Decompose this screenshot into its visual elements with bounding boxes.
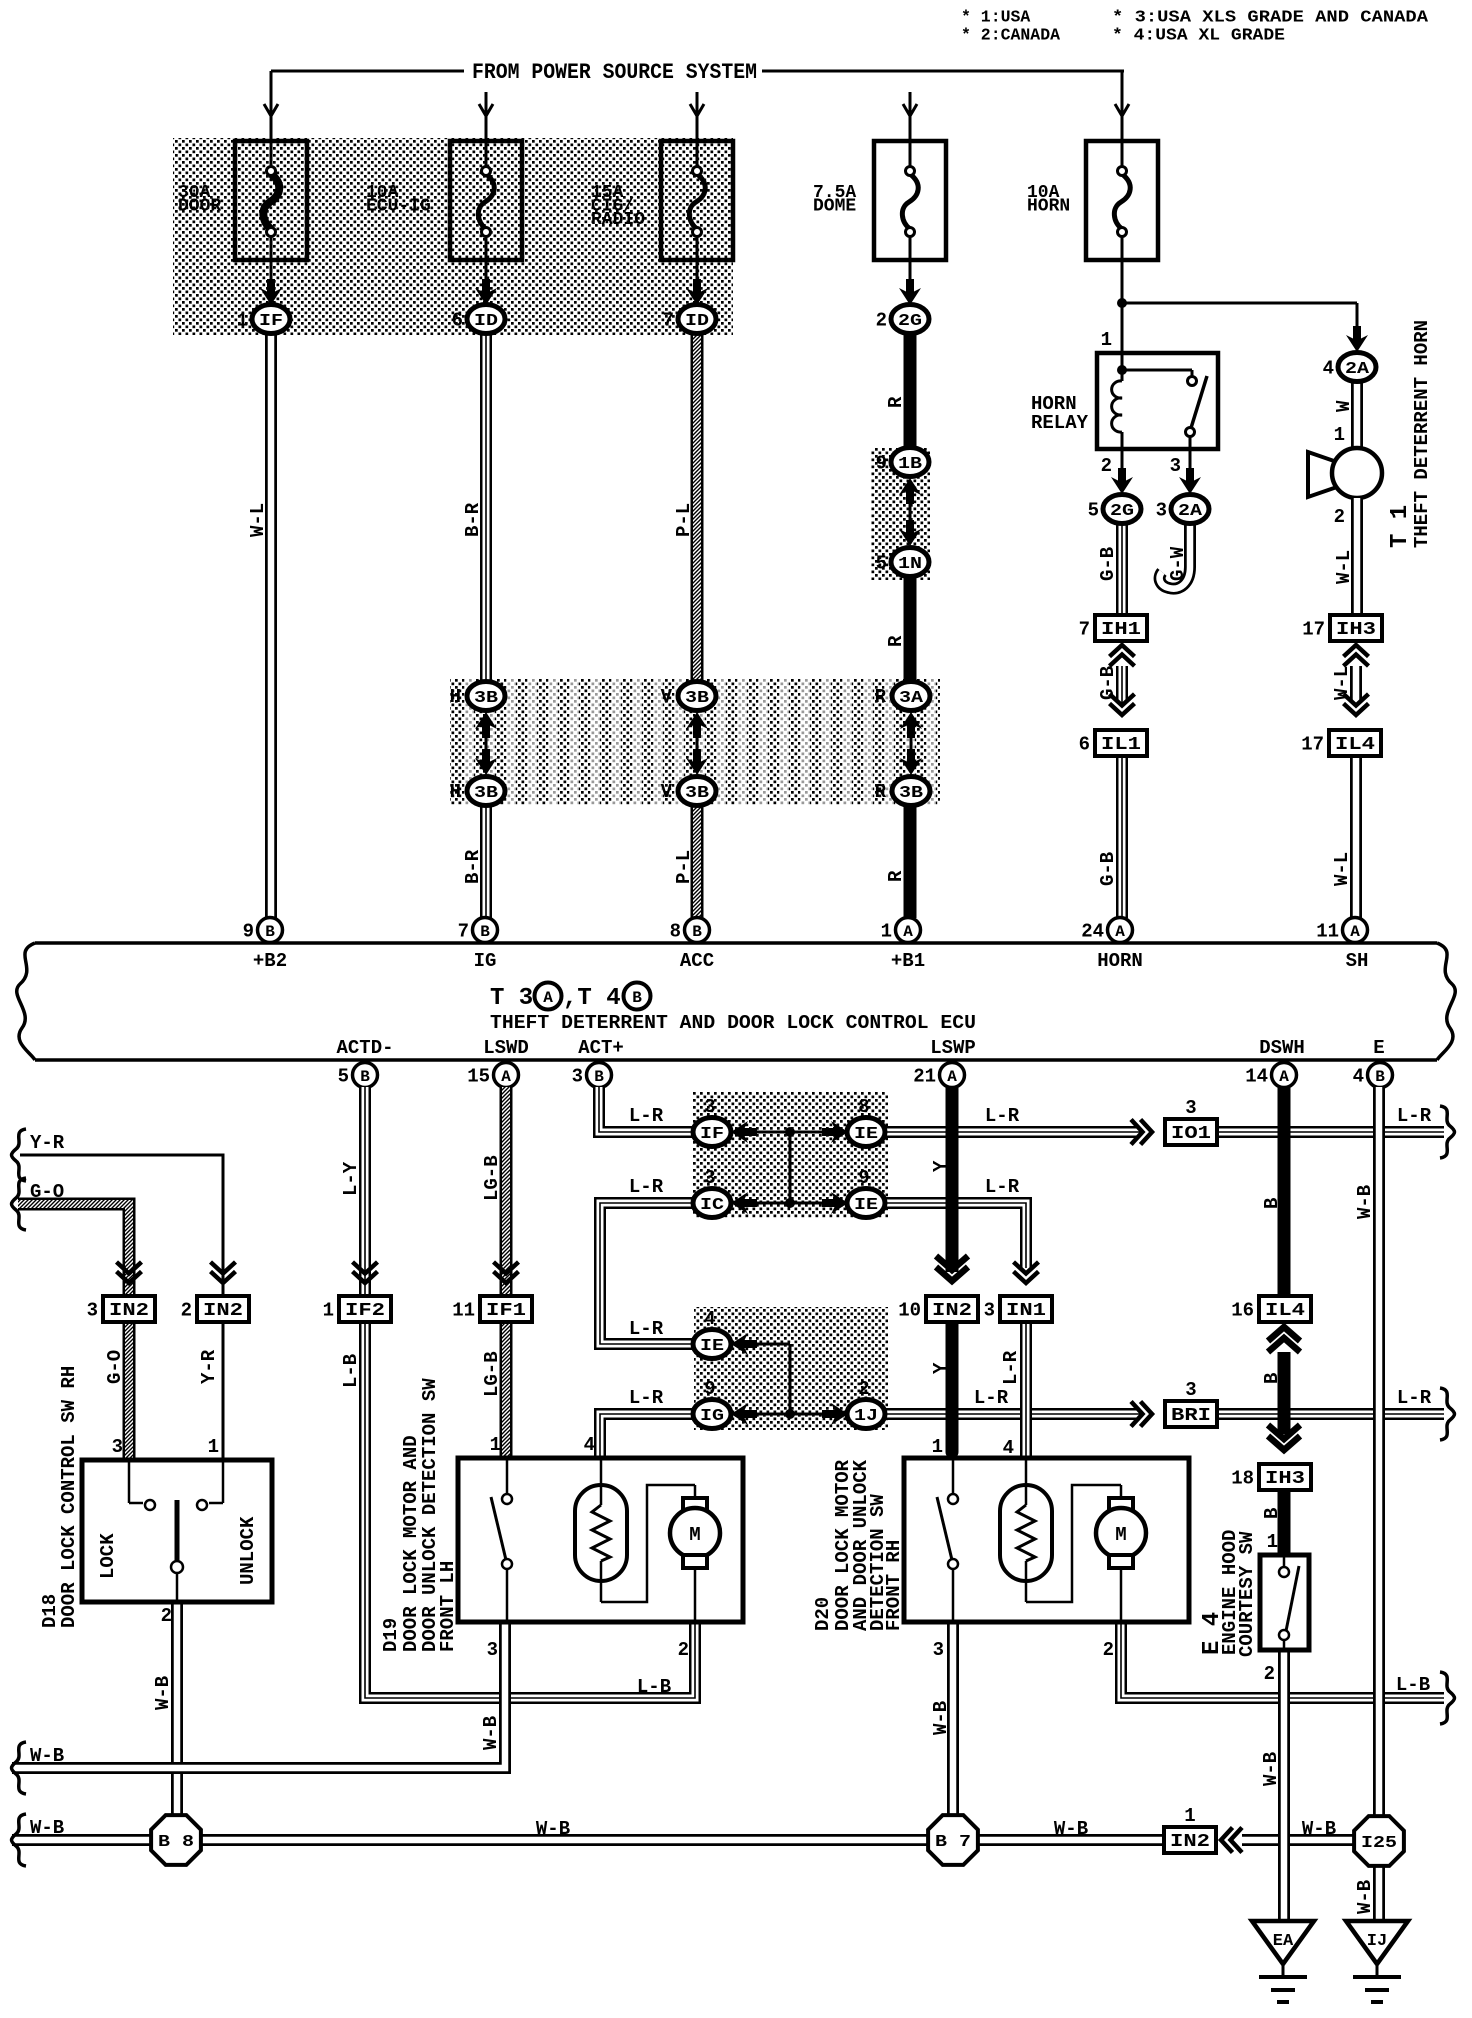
svg-text:I25: I25	[1361, 1834, 1397, 1853]
svg-text:IF1: IF1	[486, 1301, 526, 1321]
svg-text:L-R: L-R	[1397, 1387, 1432, 1409]
svg-text:ACT+: ACT+	[578, 1037, 624, 1059]
svg-text:17: 17	[1302, 619, 1325, 641]
svg-text:L-R: L-R	[629, 1318, 664, 1340]
svg-text:L-R: L-R	[985, 1176, 1020, 1198]
svg-text:R: R	[885, 870, 907, 882]
svg-text:LG-B: LG-B	[481, 1351, 503, 1397]
svg-text:A: A	[1279, 1068, 1289, 1086]
svg-text:IL4: IL4	[1335, 735, 1375, 755]
svg-text:9: 9	[876, 453, 887, 475]
svg-text:IN2: IN2	[109, 1301, 149, 1321]
svg-text:L-R: L-R	[1397, 1105, 1432, 1127]
svg-text:14: 14	[1245, 1066, 1268, 1088]
svg-text:3: 3	[933, 1639, 944, 1661]
svg-text:5: 5	[1088, 500, 1099, 522]
svg-text:HORN: HORN	[1097, 950, 1143, 972]
svg-text:16: 16	[1231, 1300, 1254, 1322]
svg-text:G-B: G-B	[1097, 852, 1119, 886]
svg-text:1: 1	[1184, 1805, 1195, 1827]
svg-text:7: 7	[1079, 619, 1090, 641]
svg-text:THEFT DETERRENT AND DOOR LOCK: THEFT DETERRENT AND DOOR LOCK CONTROL EC…	[490, 1012, 976, 1034]
svg-text:A: A	[903, 923, 913, 941]
svg-text:COURTESY SW: COURTESY SW	[1236, 1531, 1258, 1657]
svg-text:LG-B: LG-B	[481, 1155, 503, 1201]
svg-text:IH3: IH3	[1336, 620, 1376, 640]
svg-text:W-L: W-L	[1333, 550, 1355, 584]
svg-text:24: 24	[1081, 921, 1104, 943]
svg-text:2: 2	[678, 1639, 689, 1661]
svg-text:* 3:USA XLS GRADE AND CANADA: * 3:USA XLS GRADE AND CANADA	[1112, 8, 1428, 27]
svg-text:1: 1	[881, 921, 892, 943]
svg-text:W-B: W-B	[480, 1716, 502, 1750]
svg-text:R: R	[885, 635, 907, 647]
svg-text:W-B: W-B	[536, 1818, 570, 1840]
svg-text:IF: IF	[700, 1125, 724, 1144]
svg-text:L-R: L-R	[629, 1105, 664, 1127]
svg-text:W-L: W-L	[1331, 666, 1353, 700]
svg-text:2: 2	[876, 310, 887, 332]
svg-text:3: 3	[487, 1639, 498, 1661]
svg-text:3: 3	[1156, 500, 1167, 522]
svg-text:1: 1	[932, 1436, 943, 1458]
svg-text:SH: SH	[1346, 950, 1369, 972]
svg-text:3A: 3A	[899, 689, 924, 708]
svg-text:M: M	[1115, 1524, 1126, 1546]
svg-text:15: 15	[467, 1066, 490, 1088]
svg-text:A: A	[501, 1068, 511, 1086]
svg-text:R: R	[875, 781, 887, 803]
svg-text:9: 9	[704, 1378, 715, 1400]
svg-text:1: 1	[237, 310, 248, 332]
svg-text:G-O: G-O	[104, 1350, 126, 1384]
svg-text:W-B: W-B	[1054, 1818, 1088, 1840]
svg-text:IE: IE	[854, 1125, 878, 1144]
svg-text:3B: 3B	[685, 784, 709, 803]
svg-text:IL4: IL4	[1265, 1301, 1305, 1321]
svg-text:B: B	[1261, 1373, 1283, 1384]
svg-text:1J: 1J	[854, 1407, 878, 1426]
svg-text:W-B: W-B	[152, 1676, 174, 1710]
svg-text:1: 1	[323, 1300, 334, 1322]
svg-text:5: 5	[338, 1066, 349, 1088]
svg-text:V: V	[661, 686, 673, 708]
svg-text:2G: 2G	[898, 312, 922, 331]
svg-text:3: 3	[87, 1300, 98, 1322]
svg-text:ECU-IG: ECU-IG	[366, 197, 431, 217]
svg-text:B: B	[360, 1068, 370, 1086]
svg-text:1: 1	[1101, 329, 1112, 351]
svg-text:ID: ID	[685, 312, 709, 331]
svg-text:IN2: IN2	[1170, 1832, 1210, 1852]
svg-text:IN1: IN1	[1006, 1301, 1046, 1321]
svg-text:EA: EA	[1273, 1932, 1294, 1951]
svg-text:1: 1	[1267, 1531, 1278, 1553]
svg-text:3: 3	[1185, 1379, 1196, 1401]
svg-text:3: 3	[1185, 1097, 1196, 1119]
svg-text:3: 3	[1170, 455, 1181, 477]
svg-text:D19: D19	[380, 1618, 402, 1652]
svg-text:3B: 3B	[899, 784, 923, 803]
svg-text:* 4:USA XL GRADE: * 4:USA XL GRADE	[1112, 26, 1285, 45]
svg-text:3: 3	[704, 1167, 715, 1189]
svg-text:9: 9	[858, 1167, 869, 1189]
svg-text:HORN: HORN	[1027, 197, 1070, 217]
svg-text:8: 8	[858, 1096, 869, 1118]
svg-text:L-R: L-R	[1000, 1350, 1022, 1385]
svg-text:4: 4	[1353, 1066, 1364, 1088]
svg-text:A: A	[947, 1068, 957, 1086]
svg-text:DOME: DOME	[813, 197, 856, 217]
svg-text:Y: Y	[930, 1362, 952, 1374]
svg-text:ACC: ACC	[680, 950, 714, 972]
svg-text:L-Y: L-Y	[340, 1161, 362, 1196]
svg-text:2: 2	[1101, 455, 1112, 477]
svg-text:,T 4: ,T 4	[563, 985, 621, 1012]
svg-text:UNLOCK: UNLOCK	[237, 1516, 259, 1585]
svg-text:4: 4	[1003, 1437, 1014, 1459]
svg-text:A: A	[1350, 923, 1360, 941]
svg-text:4: 4	[584, 1434, 595, 1456]
svg-text:4: 4	[1323, 358, 1334, 380]
svg-text:P-L: P-L	[673, 850, 695, 884]
svg-text:+B2: +B2	[253, 950, 287, 972]
svg-text:6: 6	[1079, 734, 1090, 756]
svg-text:M: M	[689, 1524, 700, 1546]
svg-text:W-B: W-B	[930, 1701, 952, 1735]
svg-text:Y-R: Y-R	[30, 1132, 65, 1154]
svg-text:FRONT RH: FRONT RH	[883, 1540, 905, 1631]
svg-text:L-B: L-B	[340, 1354, 362, 1388]
svg-text:IL1: IL1	[1101, 735, 1141, 755]
svg-text:3: 3	[704, 1096, 715, 1118]
svg-text:G-B: G-B	[1097, 666, 1119, 700]
svg-text:2: 2	[1264, 1663, 1275, 1685]
svg-text:3: 3	[112, 1436, 123, 1458]
svg-text:B: B	[265, 923, 275, 941]
svg-text:B 8: B 8	[158, 1833, 194, 1852]
svg-text:W-B: W-B	[1260, 1752, 1282, 1786]
svg-text:2: 2	[1103, 1639, 1114, 1661]
svg-text:L-R: L-R	[985, 1105, 1020, 1127]
svg-text:FROM POWER SOURCE SYSTEM: FROM POWER SOURCE SYSTEM	[472, 60, 757, 85]
svg-text:R: R	[875, 686, 887, 708]
svg-text:2: 2	[181, 1300, 192, 1322]
svg-text:2: 2	[858, 1378, 869, 1400]
svg-text:10: 10	[898, 1300, 921, 1322]
svg-text:BRI: BRI	[1171, 1406, 1211, 1426]
svg-text:RELAY: RELAY	[1031, 412, 1089, 434]
svg-text:1N: 1N	[898, 555, 922, 574]
svg-text:11: 11	[1316, 921, 1339, 943]
svg-text:3: 3	[572, 1066, 583, 1088]
svg-text:L-B: L-B	[637, 1676, 671, 1698]
svg-text:* 2:CANADA: * 2:CANADA	[961, 26, 1060, 45]
svg-text:P-L: P-L	[673, 503, 695, 537]
svg-text:DOOR LOCK CONTROL SW RH: DOOR LOCK CONTROL SW RH	[58, 1366, 80, 1628]
svg-text:R: R	[885, 396, 907, 408]
svg-text:2A: 2A	[1178, 502, 1203, 521]
svg-text:B: B	[632, 989, 642, 1007]
svg-text:G-B: G-B	[1097, 547, 1119, 581]
svg-text:B: B	[594, 1068, 604, 1086]
svg-text:G-O: G-O	[30, 1181, 64, 1203]
svg-text:DOOR: DOOR	[178, 197, 221, 217]
svg-text:W-L: W-L	[1331, 852, 1353, 886]
svg-text:W-B: W-B	[30, 1817, 64, 1839]
svg-text:7: 7	[458, 921, 469, 943]
svg-text:21: 21	[913, 1066, 936, 1088]
svg-text:A: A	[543, 989, 553, 1007]
svg-text:* 1:USA: * 1:USA	[961, 8, 1030, 27]
svg-text:ACTD-: ACTD-	[336, 1037, 393, 1059]
svg-text:L-R: L-R	[974, 1387, 1009, 1409]
svg-text:L-B: L-B	[1396, 1674, 1430, 1696]
svg-text:THEFT DETERRENT HORN: THEFT DETERRENT HORN	[1411, 320, 1433, 548]
svg-text:L-R: L-R	[629, 1387, 664, 1409]
svg-text:B: B	[1375, 1068, 1385, 1086]
svg-text:3B: 3B	[474, 689, 498, 708]
svg-text:7: 7	[663, 310, 674, 332]
svg-text:3B: 3B	[474, 784, 498, 803]
svg-text:W-B: W-B	[1302, 1818, 1336, 1840]
svg-text:1B: 1B	[898, 455, 922, 474]
svg-text:B-R: B-R	[462, 502, 484, 537]
svg-text:17: 17	[1301, 734, 1324, 756]
svg-text:3B: 3B	[685, 689, 709, 708]
svg-text:E: E	[1373, 1037, 1384, 1059]
svg-text:FRONT LH: FRONT LH	[437, 1561, 459, 1652]
svg-text:1: 1	[1334, 424, 1345, 446]
svg-text:1: 1	[490, 1434, 501, 1456]
svg-text:W-B: W-B	[30, 1745, 64, 1767]
svg-text:W: W	[1333, 400, 1355, 412]
svg-text:IH3: IH3	[1265, 1469, 1305, 1489]
svg-text:2: 2	[1334, 506, 1345, 528]
svg-text:D20: D20	[812, 1597, 834, 1631]
svg-text:2G: 2G	[1110, 502, 1134, 521]
svg-text:IF: IF	[259, 312, 283, 331]
svg-text:ID: ID	[474, 312, 498, 331]
svg-text:DSWH: DSWH	[1259, 1037, 1305, 1059]
svg-text:18: 18	[1231, 1468, 1254, 1490]
svg-text:G-W: G-W	[1167, 546, 1189, 581]
svg-text:6: 6	[452, 310, 463, 332]
svg-text:Y-R: Y-R	[198, 1349, 220, 1384]
svg-text:IG: IG	[700, 1407, 724, 1426]
svg-text:IJ: IJ	[1367, 1932, 1387, 1951]
svg-text:3: 3	[984, 1300, 995, 1322]
svg-text:B: B	[1261, 1508, 1283, 1519]
svg-text:B: B	[692, 923, 702, 941]
svg-text:B: B	[1261, 1198, 1283, 1209]
svg-text:5: 5	[876, 553, 887, 575]
svg-text:V: V	[661, 781, 673, 803]
svg-text:11: 11	[452, 1300, 475, 1322]
svg-text:H: H	[450, 686, 461, 708]
svg-text:IC: IC	[700, 1196, 724, 1215]
svg-text:IF2: IF2	[345, 1301, 385, 1321]
svg-text:IN2: IN2	[932, 1301, 972, 1321]
svg-text:LSWD: LSWD	[483, 1037, 529, 1059]
svg-text:L-R: L-R	[629, 1176, 664, 1198]
svg-text:A: A	[1115, 923, 1125, 941]
svg-text:IH1: IH1	[1101, 620, 1141, 640]
svg-text:B: B	[480, 923, 490, 941]
svg-text:LOCK: LOCK	[97, 1533, 119, 1579]
svg-text:B-R: B-R	[462, 849, 484, 884]
svg-text:IE: IE	[854, 1196, 878, 1215]
svg-text:9: 9	[243, 921, 254, 943]
svg-text:T 3: T 3	[490, 985, 533, 1012]
svg-text:LSWP: LSWP	[930, 1037, 976, 1059]
svg-text:IN2: IN2	[203, 1301, 243, 1321]
svg-text:W-L: W-L	[247, 503, 269, 537]
svg-text:IG: IG	[474, 950, 497, 972]
svg-text:4: 4	[704, 1308, 715, 1330]
svg-text:8: 8	[670, 921, 681, 943]
svg-text:2A: 2A	[1345, 360, 1370, 379]
svg-text:RADIO: RADIO	[591, 210, 645, 230]
svg-text:T 1: T 1	[1387, 505, 1414, 548]
svg-text:1: 1	[208, 1436, 219, 1458]
svg-text:H: H	[450, 781, 461, 803]
svg-text:B 7: B 7	[935, 1833, 971, 1852]
svg-text:W-B: W-B	[1354, 1880, 1376, 1914]
svg-text:IE: IE	[700, 1337, 724, 1356]
svg-text:IO1: IO1	[1171, 1124, 1211, 1144]
svg-text:+B1: +B1	[891, 950, 925, 972]
svg-text:Y: Y	[930, 1160, 952, 1172]
svg-text:W-B: W-B	[1354, 1185, 1376, 1219]
svg-text:2: 2	[161, 1605, 172, 1627]
